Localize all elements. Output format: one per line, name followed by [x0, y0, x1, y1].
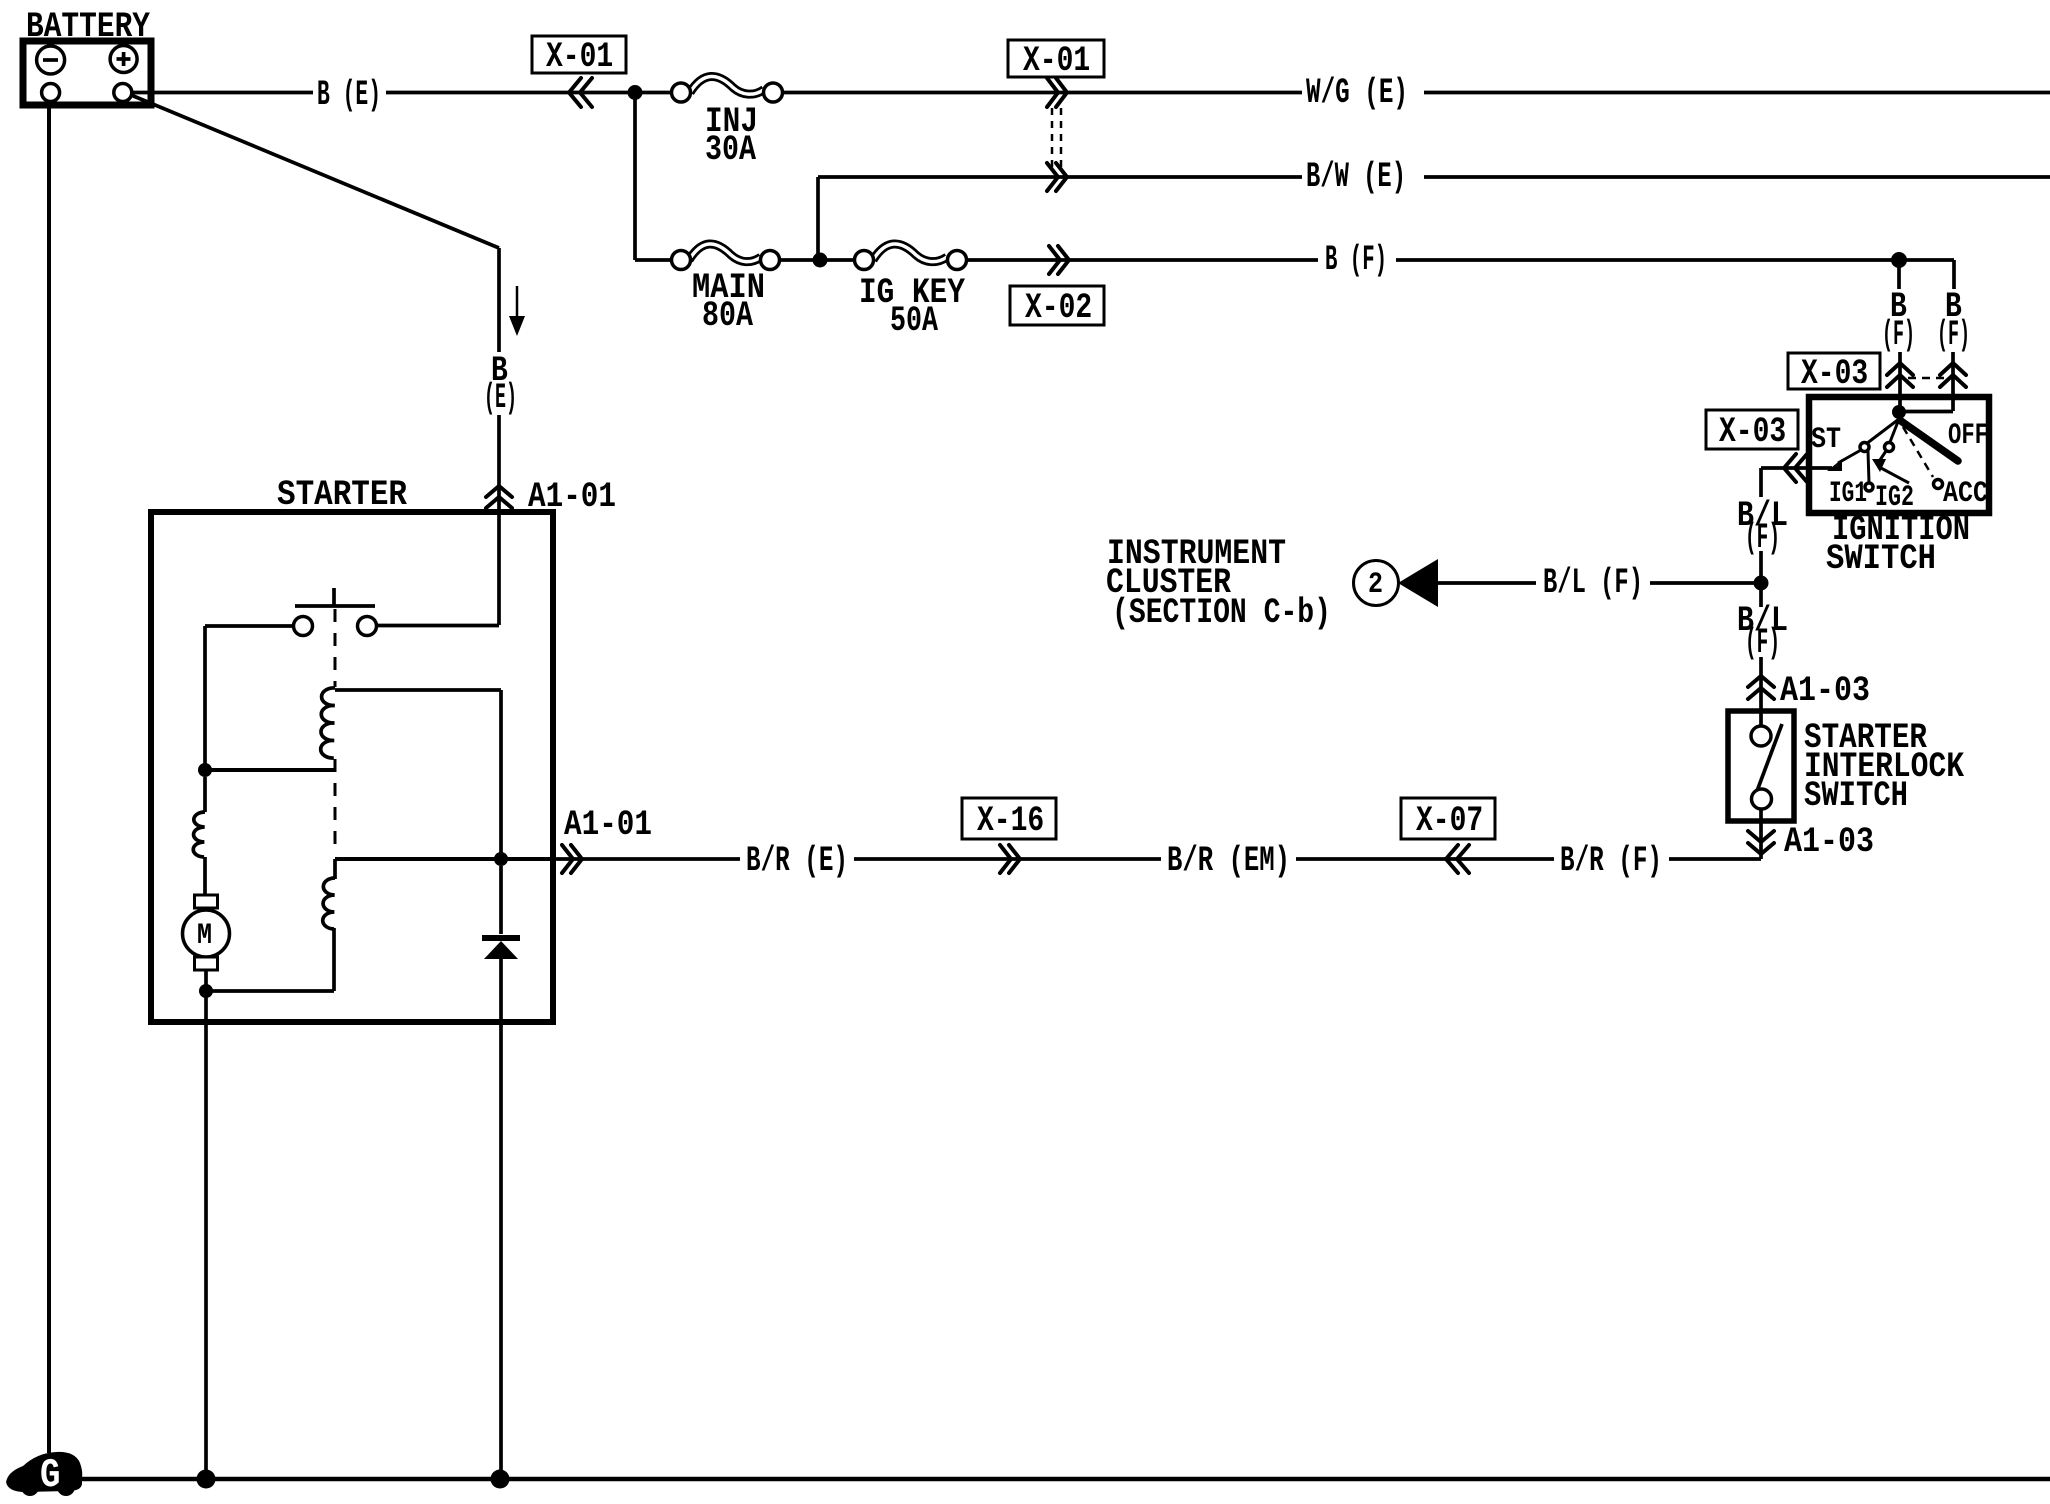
- wire B/L to node: [1759, 551, 1763, 577]
- svg-text:IG1: IG1: [1829, 477, 1867, 511]
- svg-text:X-03: X-03: [1719, 411, 1786, 452]
- svg-text:X-07: X-07: [1416, 800, 1483, 841]
- svg-text:B/R (F): B/R (F): [1560, 840, 1662, 881]
- wire to instrument cluster: [1438, 581, 1754, 585]
- connector dashed link X-03: [1908, 377, 1946, 380]
- svg-text:ACC: ACC: [1943, 477, 1988, 511]
- connector chevron B/W: [1047, 163, 1067, 191]
- relay contacts: [294, 588, 377, 636]
- connector X-01 box right: [1008, 40, 1104, 81]
- starter interlock internals: [1751, 711, 1782, 859]
- svg-text:X-01: X-01: [1023, 40, 1090, 81]
- svg-text:X-03: X-03: [1801, 353, 1868, 394]
- starter interlock switch box: [1728, 711, 1794, 821]
- fuse MAIN 80A: [672, 244, 780, 270]
- connector chevron X-16: [1000, 845, 1020, 873]
- connector chevron A1-03 upper: [1748, 676, 1774, 699]
- svg-text:B/R (E): B/R (E): [746, 840, 848, 881]
- node ground left: [197, 1470, 216, 1489]
- connector chevron X-01 right: [1047, 78, 1067, 107]
- svg-text:ST: ST: [1811, 423, 1841, 457]
- wire to motor: [203, 857, 207, 896]
- connector X-01 box left: [532, 36, 626, 77]
- connector chevron X-02: [1049, 246, 1069, 274]
- connector chevron X-03 left: [1784, 454, 1807, 482]
- svg-text:G: G: [40, 1453, 60, 1499]
- wire down to field coil: [203, 777, 207, 812]
- ground rail: [82, 1477, 2050, 1482]
- wire MAIN branch: [635, 92, 1954, 260]
- connector chevron X-07: [1446, 845, 1469, 873]
- connector chevron A1-01 top: [486, 486, 512, 508]
- arrow to instrument cluster: [1398, 559, 1438, 607]
- svg-text:SWITCH: SWITCH: [1804, 775, 1908, 816]
- relay plunger dashed: [334, 609, 337, 853]
- svg-text:(SECTION C-b): (SECTION C-b): [1112, 592, 1331, 633]
- node junction MAIN/IGKEY: [813, 253, 828, 268]
- wire B/R horizontal: [556, 857, 1761, 861]
- svg-text:STARTER: STARTER: [277, 474, 408, 515]
- wire battery negative drop: [47, 101, 51, 1453]
- wire B/W: [818, 177, 2050, 260]
- connector chevron X-01 left: [569, 78, 592, 107]
- connector X-07 box: [1401, 798, 1495, 841]
- connector X-02 box: [1010, 286, 1104, 328]
- wire pull coil stubs: [334, 859, 335, 991]
- node circle 2: [1354, 561, 1399, 606]
- connector chevron A1-01 right: [562, 845, 582, 873]
- wire B/R inside starter: [335, 857, 556, 861]
- svg-text:A1-03: A1-03: [1780, 670, 1870, 711]
- node left junction: [198, 763, 212, 777]
- ignition switch internals: [1827, 397, 1958, 491]
- battery: [23, 41, 151, 105]
- connector X-03 box top: [1788, 353, 1880, 394]
- svg-text:(E): (E): [484, 377, 517, 418]
- wire B(F) drops: [1899, 260, 1954, 395]
- svg-text:(F): (F): [1745, 622, 1780, 663]
- connector chevron A1-03 lower: [1748, 831, 1774, 854]
- svg-text:A1-01: A1-01: [564, 804, 652, 845]
- wire link to plunger: [205, 768, 335, 772]
- ground symbol G: [6, 1452, 82, 1499]
- svg-text:B/W (E): B/W (E): [1306, 156, 1406, 197]
- svg-text:X-16: X-16: [977, 800, 1044, 841]
- wire node to pull coil: [206, 989, 334, 993]
- svg-text:(F): (F): [1937, 314, 1970, 355]
- wire motor ground drop: [204, 996, 208, 1479]
- connector dashed link X-01: [1052, 108, 1061, 170]
- node B/L junction: [1754, 576, 1769, 591]
- svg-text:B (E): B (E): [317, 74, 381, 115]
- coil L2 (field): [193, 812, 205, 857]
- starter M1 box: [151, 512, 553, 1022]
- fuse IG KEY 50A: [855, 244, 967, 270]
- wire coil top link: [335, 690, 501, 853]
- wire battery diagonal to starter: [131, 95, 499, 512]
- motor M: [183, 895, 230, 970]
- svg-text:80A: 80A: [702, 295, 754, 336]
- svg-text:2: 2: [1368, 568, 1383, 602]
- node junction top: [628, 85, 643, 100]
- connector chevrons X-03 verticals: [1887, 363, 1913, 387]
- wire left contact branch: [205, 626, 294, 764]
- diode D1: [482, 866, 520, 1479]
- connector X-03 box left: [1706, 410, 1798, 452]
- svg-text:X-01: X-01: [546, 36, 613, 77]
- wire motor to node: [204, 970, 208, 986]
- node ground right: [491, 1470, 510, 1489]
- svg-text:30A: 30A: [705, 129, 757, 170]
- svg-text:SWITCH: SWITCH: [1826, 538, 1936, 579]
- connector X-16 box: [962, 798, 1056, 841]
- svg-text:X-02: X-02: [1025, 287, 1092, 328]
- svg-text:(F): (F): [1882, 314, 1915, 355]
- node junction B(F) right: [1891, 252, 1907, 268]
- wire B(E) battery to X-01: [132, 91, 2050, 95]
- fuse INJ 30A: [672, 76, 783, 102]
- svg-text:B/L (F): B/L (F): [1543, 562, 1643, 603]
- node motor bottom: [199, 984, 213, 998]
- svg-text:B/R (EM): B/R (EM): [1167, 840, 1290, 881]
- ignition switch U1 box: [1809, 397, 1989, 513]
- flow arrow down: [509, 286, 525, 336]
- svg-text:W/G (E): W/G (E): [1306, 72, 1408, 113]
- coil L3 (pull): [323, 878, 335, 929]
- svg-text:A1-03: A1-03: [1784, 821, 1874, 862]
- svg-text:M: M: [197, 919, 212, 953]
- node diode junction: [494, 852, 508, 866]
- svg-text:OFF: OFF: [1948, 419, 1988, 453]
- wire ST to B/L: [1761, 468, 1832, 497]
- starter relay feed: [376, 512, 499, 626]
- svg-text:50A: 50A: [890, 300, 939, 341]
- wire B/L down to interlock: [1759, 589, 1763, 607]
- svg-text:B (F): B (F): [1325, 239, 1387, 280]
- coil L1 (hold): [321, 688, 335, 758]
